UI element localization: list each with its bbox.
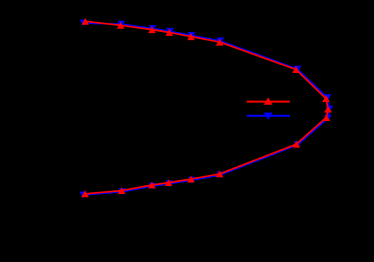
blue marker 17 (triangle-down) xyxy=(79,192,87,199)
red marker 6 (triangle-up) xyxy=(216,39,224,46)
blue marker 15 (triangle-down) xyxy=(149,183,156,190)
blue marker 14 (triangle-down) xyxy=(165,180,173,187)
red marker 14 (triangle-up) xyxy=(165,179,173,186)
red marker 2 (triangle-up) xyxy=(117,22,125,29)
blue marker 12 (triangle-down) xyxy=(217,172,225,179)
blue marker 7 (triangle-down) xyxy=(294,66,302,73)
blue marker 6 (triangle-down) xyxy=(217,38,225,45)
blue marker 1 (triangle-down) xyxy=(80,20,88,27)
red marker 12 (triangle-up) xyxy=(216,171,224,178)
legend entry 1: red line with triangle-up handle xyxy=(247,97,290,104)
blue marker 4 (triangle-down) xyxy=(166,28,174,35)
red marker 3 (triangle-up) xyxy=(148,26,156,33)
red marker 9 (triangle-up) xyxy=(324,106,332,113)
blue marker 3 (triangle-down) xyxy=(149,25,156,32)
blue marker 9 (triangle-down) xyxy=(326,106,333,113)
red marker 15 (triangle-up) xyxy=(148,182,156,189)
blue marker 13 (triangle-down) xyxy=(188,177,195,184)
blue marker 11 (triangle-down) xyxy=(294,141,302,148)
red series line (triangle-up dataset) xyxy=(85,21,328,194)
blue marker 2 (triangle-down) xyxy=(118,21,126,28)
blue series line (triangle-down dataset) xyxy=(83,23,330,195)
red marker 11 (triangle-up) xyxy=(293,141,301,148)
red marker 1 (triangle-up) xyxy=(82,18,90,25)
red marker 17 (triangle-up) xyxy=(81,190,89,197)
red marker 13 (triangle-up) xyxy=(187,176,195,183)
legend entry 2: blue line with triangle-down handle xyxy=(247,113,290,120)
blue marker 5 (triangle-down) xyxy=(188,32,195,39)
blue marker 16 (triangle-down) xyxy=(119,188,127,195)
red marker 7 (triangle-up) xyxy=(292,66,300,73)
blue marker 10 (triangle-down) xyxy=(324,115,332,122)
red marker 10 (triangle-up) xyxy=(323,114,331,121)
red marker 5 (triangle-up) xyxy=(187,33,195,40)
red marker 4 (triangle-up) xyxy=(166,29,174,36)
blue marker 8 (triangle-down) xyxy=(324,94,331,101)
red marker 8 (triangle-up) xyxy=(322,95,330,102)
red marker 16 (triangle-up) xyxy=(118,187,126,194)
